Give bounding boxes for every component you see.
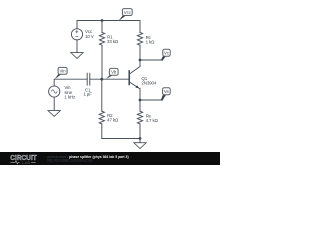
resistor R2 <box>99 79 104 138</box>
wire C1 to base (Vb net) <box>90 78 129 80</box>
node junction bottom/ground <box>139 137 142 140</box>
svg-text:2N3904: 2N3904 <box>141 81 156 86</box>
wire Vin net: source top, corner, to C1 <box>54 79 87 86</box>
svg-text:Vb: Vb <box>111 70 117 75</box>
svg-text:Vin: Vin <box>60 69 67 74</box>
value label V1 <box>85 29 94 39</box>
ground (below Vcc source) <box>71 53 83 59</box>
svg-text:1 µF: 1 µF <box>83 92 92 97</box>
wire top rail Vcc net <box>77 21 140 33</box>
resistor Rc <box>137 33 142 46</box>
wire Vcc source bottom <box>76 40 78 53</box>
wire R1 bottom to Vb node <box>101 45 103 79</box>
resistor Re <box>137 111 142 124</box>
svg-text:Vcc: Vcc <box>124 10 132 15</box>
svg-text:1 kΩ: 1 kΩ <box>146 39 156 44</box>
voltage source V1 Vcc <box>71 29 82 40</box>
value label Q1 <box>141 76 156 86</box>
value label R1 <box>107 34 119 44</box>
wire Vc stub <box>140 59 163 61</box>
node junction Vc <box>139 59 142 62</box>
node label Vin <box>55 67 67 79</box>
value label V2 <box>64 85 75 99</box>
wire Vin source bottom <box>53 97 55 110</box>
ground (bottom) <box>134 143 146 149</box>
wire Vc node to collector <box>139 60 141 67</box>
node junction top-rail/R1 <box>101 19 104 22</box>
voltage source V2 Vin sine <box>49 86 60 97</box>
value label Re <box>146 113 159 123</box>
node label Vb <box>106 68 118 79</box>
node label Vc <box>161 49 171 60</box>
svg-text:LAB: LAB <box>22 160 31 165</box>
node label Vcc <box>118 9 132 22</box>
wire Rc bottom to Vc node <box>139 45 141 60</box>
svg-text:Vc: Vc <box>164 51 170 56</box>
svg-text:1 kHz: 1 kHz <box>64 94 75 99</box>
wire bottom rail <box>102 138 140 140</box>
wire R1 top stub <box>101 21 103 33</box>
resistor R1 <box>99 33 104 46</box>
svg-text:47 kΩ: 47 kΩ <box>107 118 119 123</box>
svg-text:33 kΩ: 33 kΩ <box>107 39 119 44</box>
wire ground stub <box>139 139 141 143</box>
value label Rc <box>146 35 156 45</box>
svg-text:Ve: Ve <box>164 89 170 94</box>
value label R2 <box>107 113 119 123</box>
node junction Ve <box>139 99 142 102</box>
value label C1 <box>83 87 92 96</box>
ground (below Vin source) <box>48 111 60 117</box>
svg-text:10 V: 10 V <box>85 34 94 39</box>
node label Ve <box>161 88 171 101</box>
svg-text:http://circuitlab.com/c6me2vpt: http://circuitlab.com/c6me2vpt <box>47 159 93 163</box>
wire Re bottom to ground rail <box>139 124 141 139</box>
svg-text:4.7 kΩ: 4.7 kΩ <box>146 118 159 123</box>
wire Ve node to Re <box>139 100 141 111</box>
watermark bar <box>0 152 220 165</box>
node junction Vb/R1/R2 <box>100 78 103 81</box>
wire emitter to Ve node <box>139 89 141 100</box>
wire Ve stub <box>140 99 163 101</box>
logo CircuitLab <box>10 153 37 165</box>
transistor Q1 2N3904 <box>129 67 140 89</box>
capacitor C1 <box>87 73 90 85</box>
